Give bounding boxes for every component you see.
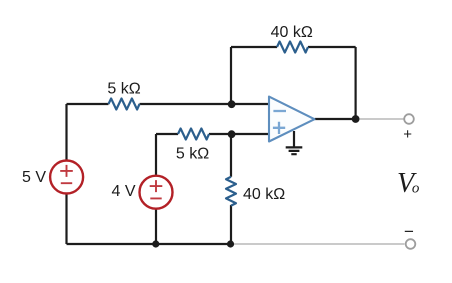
svg-text:40 kΩ: 40 kΩ xyxy=(271,24,313,41)
svg-text:+: + xyxy=(403,126,412,143)
resistor R 40 kΩ (feedback, horizontal) xyxy=(277,42,308,53)
svg-text:5 kΩ: 5 kΩ xyxy=(107,81,140,98)
svg-text:40 kΩ: 40 kΩ xyxy=(243,186,285,203)
junction node bottom rail at 40k branch xyxy=(227,240,234,247)
wire: 4V source vertical x=156 xyxy=(155,134,157,244)
wire: 40k grounded-branch vertical x=231, gap for resistor xyxy=(230,134,232,244)
V2 plus mark xyxy=(150,180,163,198)
resistor R 40 kΩ (vertical) xyxy=(226,177,236,206)
junction node bottom rail at 4V source xyxy=(152,240,159,247)
junction node at op-amp output / feedback xyxy=(352,115,360,123)
svg-text:4 V: 4 V xyxy=(111,183,135,200)
wire: noninverting input wire y=134 from node to op-amp xyxy=(231,133,269,135)
wire: feedback top horizontal y=47, gap for R 40k xyxy=(231,46,356,48)
op-amp inverting marker − xyxy=(273,110,286,112)
svg-text:5 V: 5 V xyxy=(22,169,46,186)
ground symbol below op-amp xyxy=(286,131,303,154)
wire: bottom rail y=244 (black part) xyxy=(67,243,232,245)
wire: top-left horizontal at y=104 (5V rail to op-amp inverting input), gap for R 5k xyxy=(67,103,270,105)
output terminal bottom (open circle) xyxy=(406,239,416,249)
voltage source V1 5V circle xyxy=(50,161,83,194)
wire: 4V branch horizontal y=134 to noninverting node, gap for R 5k xyxy=(156,133,231,135)
wire: gray lead from output node to top terminal xyxy=(356,118,404,120)
output terminal top (open circle) xyxy=(404,114,414,124)
wire: feedback right vertical x=355.6 down to output node xyxy=(355,47,357,119)
junction node at noninverting input / 40k top xyxy=(228,130,236,138)
junction node at inverting input / feedback tap xyxy=(228,100,236,108)
resistor R 5 kΩ (top-left, horizontal) xyxy=(109,99,140,110)
svg-text:Vo: Vo xyxy=(397,168,420,199)
wire: feedback left vertical x=231 from node to top rail xyxy=(230,47,232,104)
op-amp U1 triangle xyxy=(269,97,315,142)
wire: op-amp output y=119 black to feedback node xyxy=(315,118,356,120)
wire: left rail x=66.5 from minus-input wire down to bottom rail xyxy=(65,104,67,244)
svg-text:−: − xyxy=(404,222,414,241)
V1 plus mark xyxy=(60,165,73,183)
wire: bottom rail gray lead to output terminal xyxy=(232,243,405,245)
voltage source V2 4V circle xyxy=(140,176,173,209)
svg-text:5 kΩ: 5 kΩ xyxy=(176,146,209,163)
resistor R 5 kΩ (middle, horizontal) xyxy=(178,129,209,140)
op-amp noninverting marker + xyxy=(273,122,285,134)
